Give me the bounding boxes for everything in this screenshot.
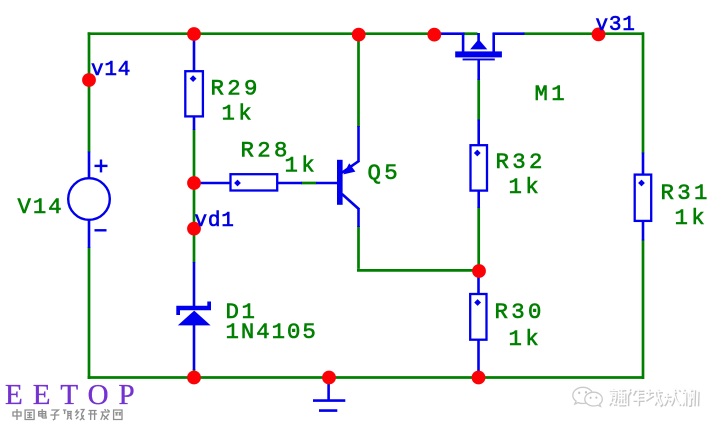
- mosfet M1 arrow: [470, 39, 487, 49]
- junction dot R28 node: [187, 176, 201, 190]
- junction dot diode bottom: [187, 371, 201, 385]
- wire bottom horizontal ground net: [88, 376, 644, 379]
- wire Q5 collector vertical to top wire: [357, 34, 360, 127]
- voltage source V1 leads: [88, 152, 91, 249]
- char dian: [39, 409, 47, 418]
- ground symbol: [313, 378, 345, 411]
- svg-text:EETOP: EETOP: [5, 379, 145, 411]
- svg-text:R32: R32: [496, 149, 546, 175]
- char ji: [76, 410, 85, 421]
- svg-text:vd1: vd1: [195, 210, 235, 233]
- wire R32 bottom to node: [477, 207, 480, 270]
- watermark wechat icon: [573, 387, 603, 406]
- mosfet M1 channel thick bar: [455, 51, 502, 57]
- junction dot Q5 emitter R32 R30: [472, 264, 486, 278]
- resistor R29 leads: [193, 34, 196, 130]
- wire M1 drain to R32: [477, 79, 480, 121]
- char guo: [25, 410, 34, 420]
- svg-text:v31: v31: [596, 14, 636, 37]
- mosfet M1 source lead to the right: [493, 32, 525, 35]
- voltage source V14 circle: [68, 178, 110, 220]
- resistor R32 leads: [477, 120, 480, 209]
- char fa: [101, 409, 110, 420]
- svg-text:1k: 1k: [675, 205, 709, 231]
- junction dot top M1 gate: [427, 28, 441, 42]
- resistor R30 polarity dot: [474, 299, 481, 306]
- wire R28 middle green segment: [301, 182, 317, 185]
- resistor R28 body: [231, 174, 278, 190]
- svg-text:1k: 1k: [509, 326, 543, 352]
- resistor R31 polarity dot: [638, 180, 645, 187]
- EETOP chinese subtitle (drawn strokes): [13, 409, 122, 420]
- svg-text:1k: 1k: [222, 101, 256, 127]
- junction dot net vd1: [187, 222, 201, 236]
- voltage source plus sign: [95, 160, 108, 173]
- mosfet M1 gate lead from node: [434, 32, 465, 35]
- resistor R31 leads: [642, 153, 645, 241]
- svg-text:Q5: Q5: [368, 160, 402, 186]
- char ding: [63, 410, 72, 420]
- wire diode bottom to ground wire: [193, 369, 196, 377]
- transistor Q5 base bar: [337, 160, 343, 205]
- svg-text:R28: R28: [241, 138, 291, 164]
- resistor R31 body: [635, 175, 652, 221]
- wire R30 bottom to ground wire: [477, 371, 480, 377]
- mosfet M1 substrate thin bar: [463, 59, 495, 61]
- junction dot ground: [322, 371, 336, 385]
- mosfet M1 drain lead down: [477, 60, 480, 80]
- resistor R29 polarity dot: [190, 75, 197, 82]
- zener diode D1 leads: [193, 262, 196, 370]
- svg-text:v14: v14: [91, 59, 131, 82]
- transistor Q5 collector lead (top): [342, 126, 359, 173]
- zener diode D1 anode triangle: [178, 311, 211, 326]
- transistor Q5 emitter arrow: [343, 163, 355, 174]
- wire left vertical net v14: [88, 32, 91, 379]
- char wang: [114, 410, 122, 420]
- voltage source minus sign: [95, 229, 107, 231]
- resistor R32 body: [471, 145, 488, 190]
- mosfet M1 middle vertical lead: [477, 33, 480, 44]
- char zi: [50, 410, 59, 420]
- junction dot top Q5: [352, 28, 366, 42]
- char kai: [88, 411, 97, 421]
- transistor Q5 base lead: [316, 182, 338, 185]
- svg-text:1N4105: 1N4105: [226, 319, 318, 345]
- mosfet M1 left vertical lead: [462, 33, 465, 52]
- svg-text:1k: 1k: [285, 153, 319, 179]
- transistor Q5 emitter lead (bottom): [342, 194, 359, 227]
- resistor R32 polarity dot: [474, 150, 481, 157]
- junction dot net v14: [82, 73, 96, 87]
- wire right vertical net v31 to ground: [642, 32, 645, 379]
- wire top horizontal net v31: [88, 32, 644, 35]
- svg-text:V14: V14: [18, 194, 64, 220]
- resistor R28 leads: [194, 182, 302, 185]
- mosfet M1 right vertical lead: [492, 33, 495, 52]
- wire R29 lower lead to node vd1: [193, 129, 196, 263]
- junction dot top R29: [187, 27, 201, 41]
- zener diode D1 cathode bar with bent ends: [176, 302, 211, 316]
- resistor R30 body: [470, 294, 486, 340]
- junction dot R30 bottom: [472, 371, 486, 385]
- svg-text:R29: R29: [211, 76, 261, 102]
- resistor R28 polarity dot: [234, 180, 241, 187]
- svg-text:R31: R31: [661, 180, 711, 206]
- junction dot net v31: [592, 28, 606, 42]
- wire Q5 emitter down and across to node: [357, 226, 479, 270]
- svg-text:R30: R30: [495, 299, 545, 325]
- resistor R30 leads: [477, 271, 480, 371]
- char zhong: [13, 409, 21, 420]
- svg-text:M1: M1: [535, 81, 569, 107]
- svg-text:1k: 1k: [509, 174, 543, 200]
- resistor R29 body: [185, 71, 203, 116]
